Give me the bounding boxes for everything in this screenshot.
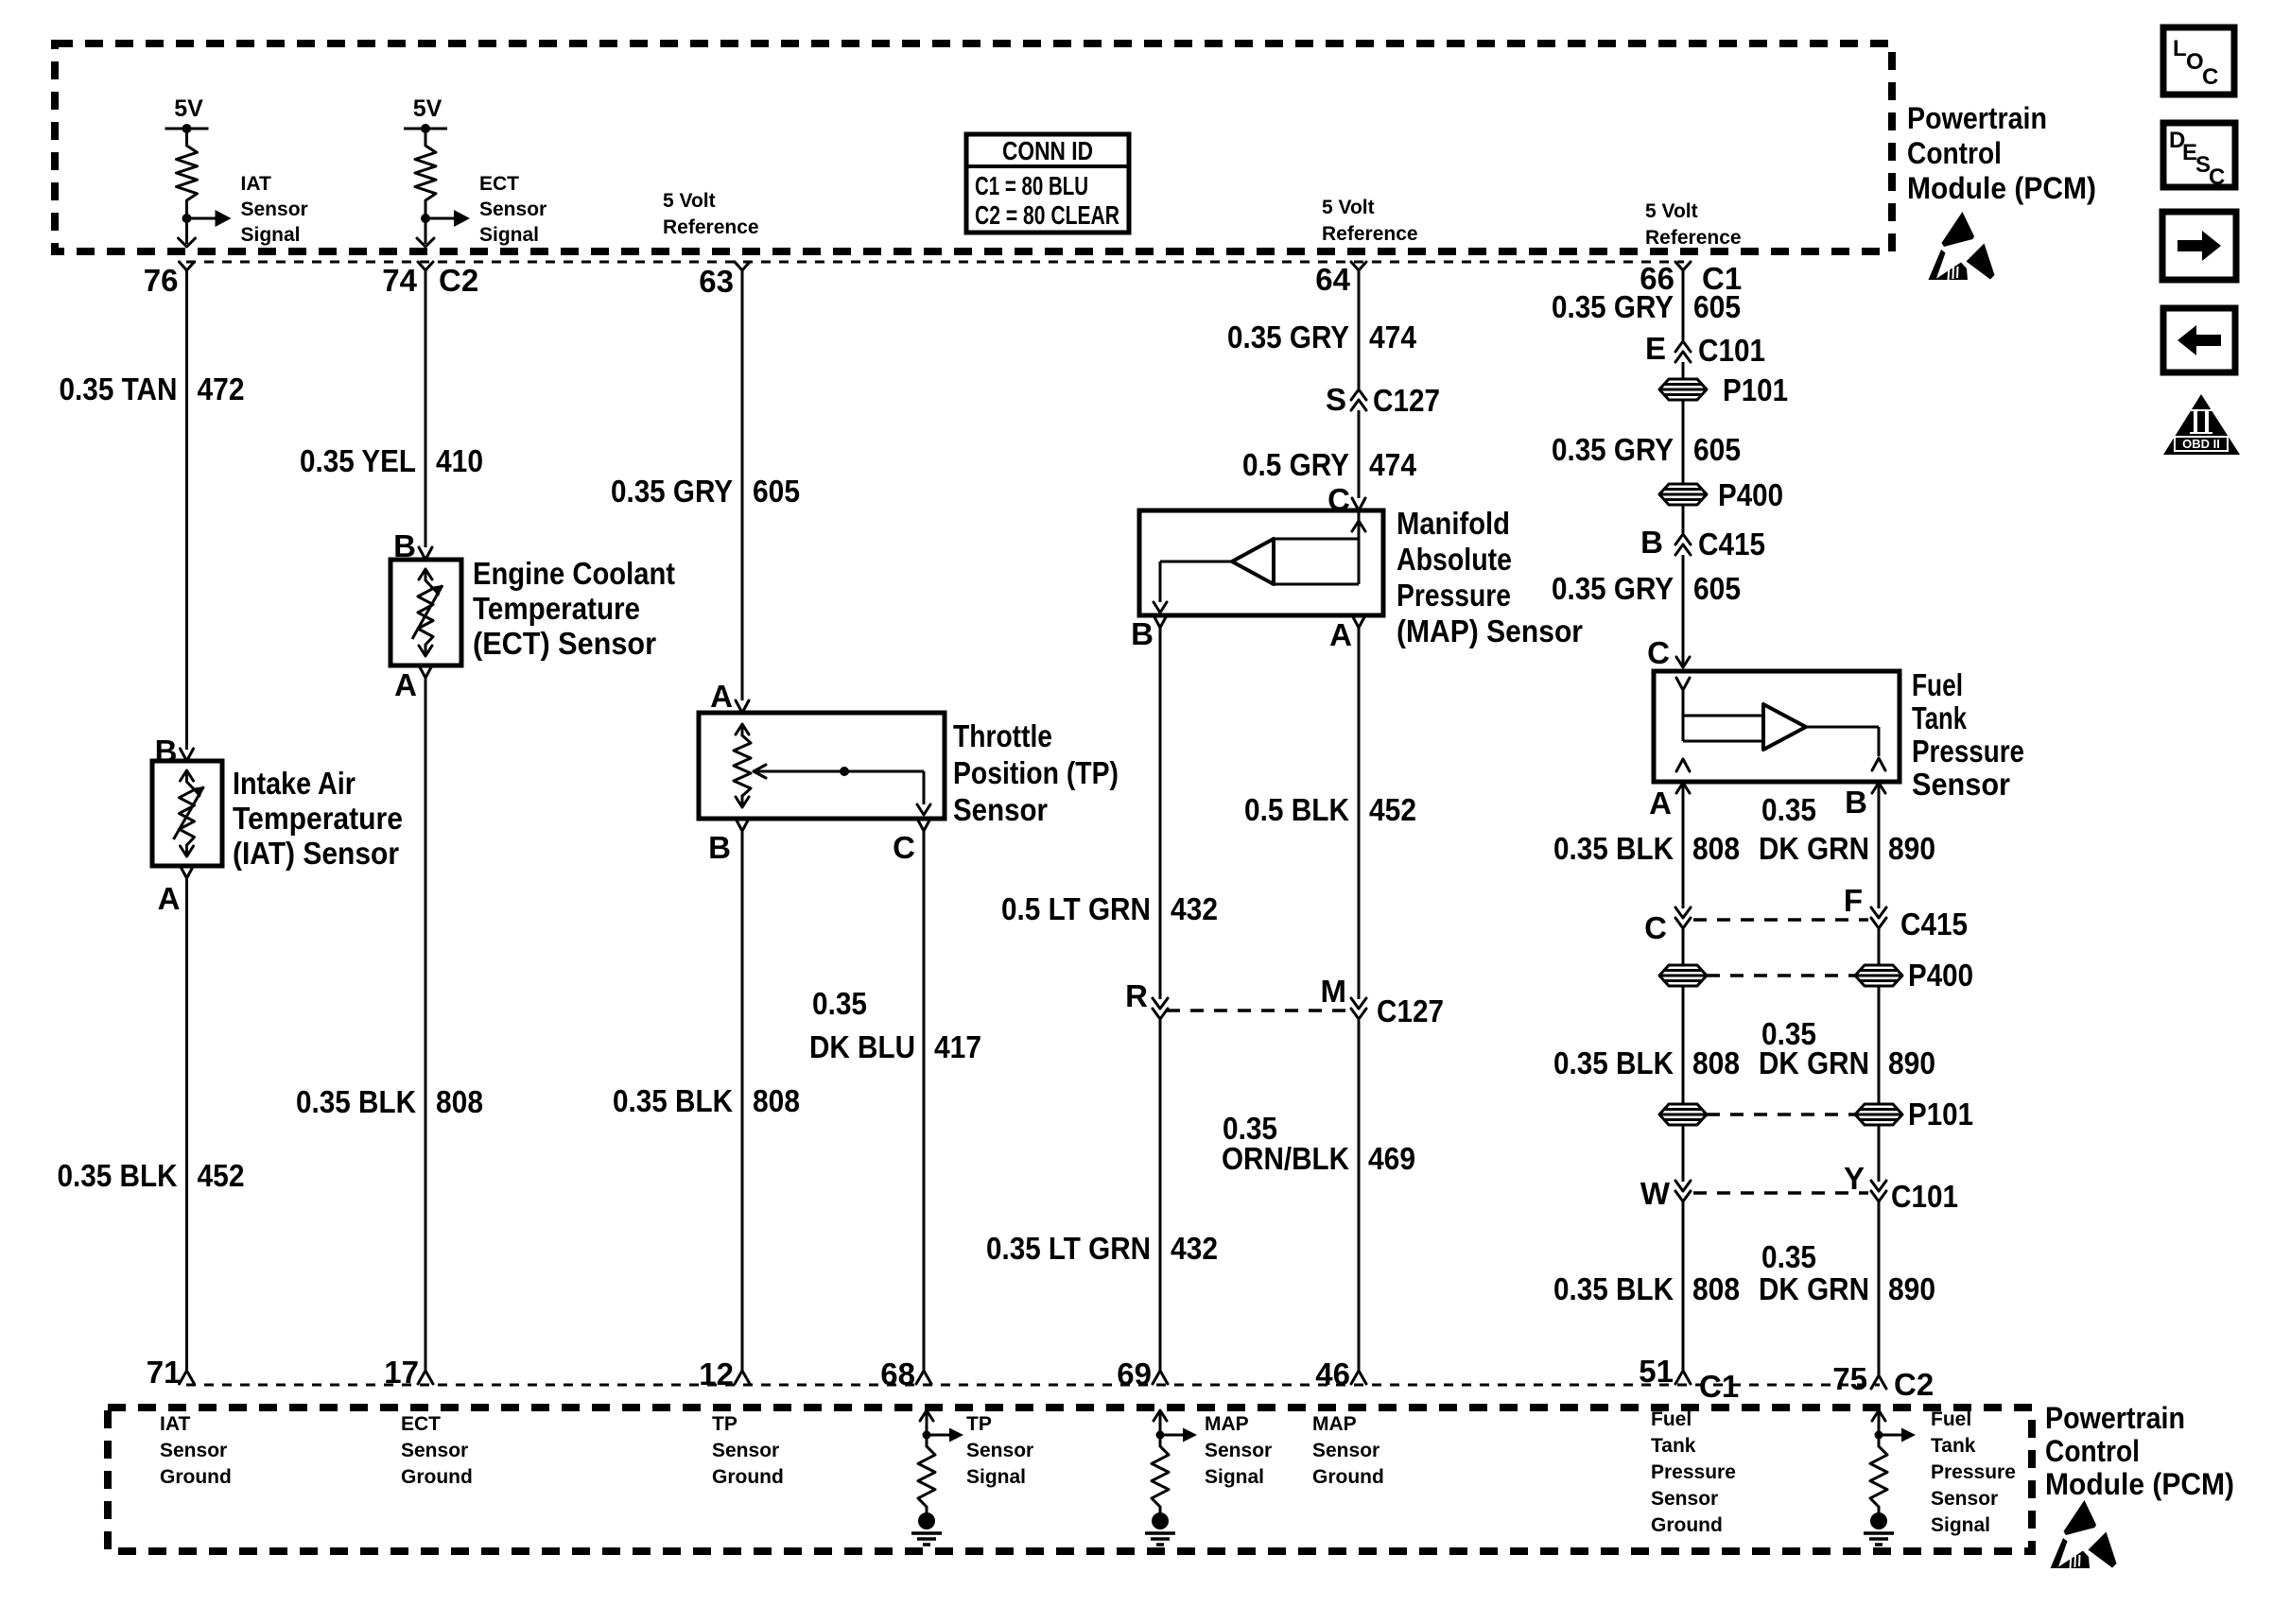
svg-text:605: 605 <box>1693 571 1741 606</box>
svg-text:Signal: Signal <box>241 224 301 246</box>
svg-text:Pressure: Pressure <box>1651 1461 1736 1483</box>
svg-text:64: 64 <box>1315 262 1350 297</box>
svg-text:808: 808 <box>1692 1271 1740 1306</box>
svg-text:5 Volt: 5 Volt <box>1645 200 1698 222</box>
svg-text:P400: P400 <box>1718 477 1783 512</box>
svg-text:B: B <box>1131 616 1154 651</box>
svg-text:Tank: Tank <box>1651 1435 1696 1457</box>
svg-text:74: 74 <box>382 263 417 298</box>
svg-text:B: B <box>708 830 731 865</box>
svg-text:TP: TP <box>712 1413 737 1435</box>
svg-text:F: F <box>1844 883 1863 918</box>
svg-text:C415: C415 <box>1698 527 1765 561</box>
svg-text:C415: C415 <box>1900 907 1968 942</box>
svg-text:432: 432 <box>1171 891 1218 926</box>
svg-text:ECT: ECT <box>479 173 519 195</box>
svg-text:Sensor: Sensor <box>966 1440 1033 1461</box>
svg-text:0.35 BLK: 0.35 BLK <box>296 1084 416 1119</box>
svg-text:Engine Coolant: Engine Coolant <box>473 556 675 591</box>
svg-text:(IAT) Sensor: (IAT) Sensor <box>233 836 399 871</box>
svg-text:B: B <box>393 528 416 563</box>
svg-text:Sensor: Sensor <box>401 1440 468 1461</box>
svg-text:Throttle: Throttle <box>953 718 1052 753</box>
svg-text:Tank: Tank <box>1912 700 1967 735</box>
svg-text:469: 469 <box>1368 1141 1415 1176</box>
svg-text:472: 472 <box>198 371 245 406</box>
svg-text:Reference: Reference <box>663 216 759 238</box>
svg-text:Ground: Ground <box>401 1466 473 1488</box>
svg-text:0.35 GRY: 0.35 GRY <box>1552 571 1674 606</box>
svg-text:Temperature: Temperature <box>473 591 640 626</box>
svg-text:A: A <box>1329 617 1352 652</box>
svg-text:5V: 5V <box>413 95 442 122</box>
svg-text:417: 417 <box>934 1029 981 1064</box>
svg-text:Sensor: Sensor <box>241 199 308 220</box>
svg-text:71: 71 <box>147 1355 182 1390</box>
svg-text:DK GRN: DK GRN <box>1759 1271 1869 1306</box>
svg-text:Signal: Signal <box>1205 1466 1264 1488</box>
svg-text:Sensor: Sensor <box>479 199 547 220</box>
svg-text:O: O <box>2186 49 2204 75</box>
svg-text:(ECT) Sensor: (ECT) Sensor <box>473 626 656 661</box>
svg-text:(MAP) Sensor: (MAP) Sensor <box>1397 613 1583 648</box>
svg-text:A: A <box>394 667 417 702</box>
svg-text:0.35: 0.35 <box>1761 1239 1816 1274</box>
svg-text:C127: C127 <box>1377 993 1444 1028</box>
svg-text:0.35: 0.35 <box>1761 792 1816 827</box>
svg-text:605: 605 <box>1693 432 1741 467</box>
svg-text:474: 474 <box>1369 320 1417 354</box>
svg-text:C: C <box>893 830 915 865</box>
svg-text:Position (TP): Position (TP) <box>953 755 1119 790</box>
svg-text:C: C <box>1644 910 1667 945</box>
svg-text:C101: C101 <box>1891 1179 1958 1214</box>
svg-text:75: 75 <box>1832 1361 1867 1396</box>
svg-text:MAP: MAP <box>1205 1413 1249 1435</box>
svg-text:Reference: Reference <box>1645 227 1742 249</box>
svg-text:0.35 BLK: 0.35 BLK <box>58 1158 178 1193</box>
svg-text:Pressure: Pressure <box>1912 734 2024 769</box>
svg-text:IAT: IAT <box>160 1413 190 1435</box>
svg-text:P101: P101 <box>1908 1097 1973 1132</box>
svg-text:Module (PCM): Module (PCM) <box>1907 171 2096 205</box>
svg-text:808: 808 <box>1692 1045 1740 1080</box>
svg-text:5V: 5V <box>174 95 203 122</box>
svg-text:0.35 GRY: 0.35 GRY <box>1227 320 1349 354</box>
svg-text:C1: C1 <box>1699 1369 1739 1404</box>
svg-text:Powertrain: Powertrain <box>1907 101 2047 135</box>
svg-text:Tank: Tank <box>1931 1435 1976 1457</box>
svg-text:0.35 BLK: 0.35 BLK <box>1553 831 1674 866</box>
svg-text:0.35 BLK: 0.35 BLK <box>613 1083 733 1118</box>
svg-text:E: E <box>1645 331 1666 366</box>
svg-text:Absolute: Absolute <box>1397 542 1512 577</box>
svg-text:DK GRN: DK GRN <box>1759 831 1869 866</box>
svg-text:C: C <box>2202 64 2218 90</box>
svg-text:0.35 BLK: 0.35 BLK <box>1553 1045 1674 1080</box>
svg-text:0.35 TAN: 0.35 TAN <box>60 371 178 406</box>
svg-text:890: 890 <box>1888 1271 1935 1306</box>
svg-text:P400: P400 <box>1908 958 1973 993</box>
svg-text:474: 474 <box>1369 447 1417 482</box>
svg-text:605: 605 <box>1693 289 1741 324</box>
svg-text:Temperature: Temperature <box>233 801 403 836</box>
svg-text:Sensor: Sensor <box>1312 1440 1379 1461</box>
svg-text:808: 808 <box>436 1084 483 1119</box>
svg-text:Sensor: Sensor <box>1931 1488 1998 1510</box>
svg-text:C2: C2 <box>439 263 478 298</box>
svg-text:Signal: Signal <box>1931 1514 1990 1536</box>
svg-text:MAP: MAP <box>1312 1413 1357 1435</box>
svg-text:L: L <box>2173 36 2187 61</box>
svg-text:5 Volt: 5 Volt <box>663 190 716 212</box>
svg-text:Ground: Ground <box>1312 1466 1384 1488</box>
svg-text:890: 890 <box>1888 1045 1935 1080</box>
svg-text:51: 51 <box>1639 1354 1674 1389</box>
svg-text:Ground: Ground <box>712 1466 784 1488</box>
svg-text:46: 46 <box>1315 1356 1350 1391</box>
svg-text:A: A <box>1649 786 1672 821</box>
svg-text:0.35 GRY: 0.35 GRY <box>1552 289 1674 324</box>
svg-text:C2: C2 <box>1894 1367 1934 1402</box>
svg-text:ECT: ECT <box>401 1413 441 1435</box>
svg-text:Control: Control <box>2045 1434 2140 1468</box>
svg-text:12: 12 <box>699 1356 734 1391</box>
svg-text:Control: Control <box>1907 136 2002 170</box>
svg-text:Sensor: Sensor <box>160 1440 227 1461</box>
svg-text:Sensor: Sensor <box>953 792 1048 827</box>
svg-text:OBD II: OBD II <box>2182 437 2220 451</box>
svg-text:0.35 GRY: 0.35 GRY <box>611 474 733 509</box>
svg-text:890: 890 <box>1888 831 1935 866</box>
svg-text:Signal: Signal <box>479 224 539 246</box>
svg-text:Sensor: Sensor <box>1205 1440 1272 1461</box>
svg-text:Ground: Ground <box>1651 1514 1723 1536</box>
svg-text:Fuel: Fuel <box>1651 1408 1692 1430</box>
svg-text:452: 452 <box>198 1158 245 1193</box>
svg-text:P101: P101 <box>1723 372 1788 407</box>
svg-text:B: B <box>1845 785 1867 820</box>
svg-text:452: 452 <box>1369 792 1416 827</box>
svg-text:W: W <box>1640 1176 1671 1211</box>
svg-text:CONN ID: CONN ID <box>1002 136 1093 165</box>
svg-text:C: C <box>2209 164 2225 190</box>
svg-text:76: 76 <box>144 263 179 298</box>
svg-text:Fuel: Fuel <box>1912 667 1963 702</box>
svg-text:DK BLU: DK BLU <box>809 1029 915 1064</box>
svg-text:0.35 LT GRN: 0.35 LT GRN <box>986 1231 1151 1266</box>
svg-text:Sensor: Sensor <box>712 1440 779 1461</box>
svg-text:808: 808 <box>753 1083 800 1118</box>
svg-text:63: 63 <box>699 264 734 299</box>
svg-text:0.35 GRY: 0.35 GRY <box>1552 432 1674 467</box>
svg-text:0.5 BLK: 0.5 BLK <box>1244 792 1349 827</box>
svg-text:69: 69 <box>1117 1356 1152 1391</box>
svg-text:C127: C127 <box>1373 383 1440 418</box>
svg-text:808: 808 <box>1692 831 1740 866</box>
svg-text:5 Volt: 5 Volt <box>1322 197 1375 218</box>
svg-text:Module (PCM): Module (PCM) <box>2045 1467 2234 1501</box>
svg-text:17: 17 <box>384 1355 419 1390</box>
svg-text:Pressure: Pressure <box>1397 578 1511 613</box>
svg-text:0.35 YEL: 0.35 YEL <box>300 443 416 478</box>
svg-text:C2 = 80 CLEAR: C2 = 80 CLEAR <box>975 200 1119 230</box>
svg-text:M: M <box>1321 974 1347 1009</box>
svg-text:605: 605 <box>753 474 800 509</box>
svg-text:R: R <box>1125 978 1148 1013</box>
svg-text:Manifold: Manifold <box>1397 506 1510 541</box>
svg-text:ORN/BLK: ORN/BLK <box>1222 1141 1349 1176</box>
svg-text:DK GRN: DK GRN <box>1759 1045 1869 1080</box>
svg-text:Pressure: Pressure <box>1931 1461 2016 1483</box>
svg-text:Reference: Reference <box>1322 223 1418 245</box>
svg-text:0.5 LT GRN: 0.5 LT GRN <box>1001 891 1151 926</box>
svg-text:Fuel: Fuel <box>1931 1408 1971 1430</box>
svg-text:TP: TP <box>966 1413 992 1435</box>
svg-text:Signal: Signal <box>966 1466 1026 1488</box>
svg-text:C101: C101 <box>1698 333 1765 368</box>
svg-text:A: A <box>710 679 733 714</box>
svg-text:68: 68 <box>880 1356 915 1391</box>
svg-text:432: 432 <box>1171 1231 1218 1266</box>
svg-text:0.35: 0.35 <box>812 986 867 1021</box>
svg-text:C1 = 80 BLU: C1 = 80 BLU <box>975 171 1088 200</box>
svg-text:IAT: IAT <box>241 173 271 195</box>
svg-text:A: A <box>158 881 181 916</box>
svg-text:Powertrain: Powertrain <box>2045 1401 2185 1435</box>
svg-text:C: C <box>1647 635 1670 670</box>
svg-text:Intake Air: Intake Air <box>233 766 356 801</box>
svg-text:0.35 BLK: 0.35 BLK <box>1553 1271 1674 1306</box>
svg-text:B: B <box>1640 525 1663 560</box>
svg-text:Y: Y <box>1844 1161 1865 1196</box>
svg-text:410: 410 <box>436 443 483 478</box>
svg-text:Ground: Ground <box>160 1466 232 1488</box>
svg-text:Sensor: Sensor <box>1912 767 2010 802</box>
svg-text:B: B <box>155 734 178 769</box>
svg-text:0.5 GRY: 0.5 GRY <box>1242 447 1349 482</box>
svg-text:Sensor: Sensor <box>1651 1488 1718 1510</box>
svg-text:S: S <box>1326 382 1346 417</box>
